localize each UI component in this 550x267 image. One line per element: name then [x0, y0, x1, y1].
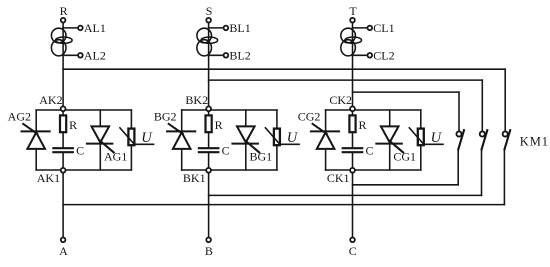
svg-text:BG2: BG2	[154, 110, 177, 124]
tap CL1	[353, 27, 368, 29]
svg-text:R: R	[215, 118, 223, 132]
thyristor BG1 (middle branch, pointing down)	[245, 110, 247, 126]
gate of BG1	[246, 141, 260, 153]
svg-text:AL2: AL2	[84, 48, 106, 62]
svg-text:AK1: AK1	[37, 171, 60, 185]
KM1 contact for phase B	[480, 131, 485, 136]
node BK2	[206, 106, 211, 111]
svg-text:AG2: AG2	[8, 110, 31, 124]
svg-text:AK2: AK2	[39, 93, 62, 107]
wire S terminal down to reactor	[208, 23, 210, 28]
svg-text:C: C	[349, 244, 357, 258]
wire bus from phase B to KM1 contact	[209, 79, 483, 81]
svg-text:KM1: KM1	[520, 134, 549, 148]
svg-text:CL1: CL1	[373, 21, 394, 35]
snubber box top wire	[182, 109, 277, 111]
KM1 contact for phase C	[456, 131, 461, 136]
wire contact bottom return to node BK1	[481, 150, 483, 196]
svg-text:BL1: BL1	[229, 21, 250, 35]
wire contact bottom return to node AK1	[503, 150, 505, 205]
svg-text:BK2: BK2	[185, 93, 208, 107]
snubber box bottom wire	[326, 169, 421, 171]
svg-text:CG2: CG2	[298, 110, 321, 124]
svg-text:CK1: CK1	[327, 171, 350, 185]
node CK2	[350, 106, 355, 111]
thyristor AG1 (middle branch, pointing down)	[99, 110, 101, 126]
capacitor C	[53, 147, 72, 149]
svg-text:CL2: CL2	[373, 48, 394, 62]
load terminal B	[206, 238, 211, 243]
snubber box bottom wire	[36, 169, 131, 171]
snubber box bottom wire	[182, 169, 277, 171]
gate of AG2	[23, 124, 37, 134]
varistor U (right branch)	[130, 110, 132, 129]
svg-text:S: S	[206, 4, 213, 18]
wire contact bottom return to node CK1	[457, 150, 459, 185]
resistor R	[352, 110, 354, 115]
capacitor C	[199, 147, 218, 149]
svg-text:C: C	[366, 143, 374, 157]
resistor R	[208, 110, 210, 115]
svg-text:U: U	[287, 130, 299, 146]
svg-text:A: A	[59, 244, 68, 258]
gate of CG2	[313, 124, 327, 134]
load terminal C	[350, 238, 355, 243]
reactor coil CL (tapped winding)	[341, 28, 356, 43]
KM1 contact for phase A	[503, 131, 508, 136]
wire CK1 down to load terminal C	[352, 170, 354, 238]
svg-text:T: T	[349, 4, 357, 18]
svg-text:R: R	[69, 118, 77, 132]
svg-text:U: U	[431, 130, 443, 146]
wire through reactor	[352, 28, 354, 110]
svg-text:C: C	[222, 143, 230, 157]
thyristor CG2 (left branch, pointing up)	[325, 110, 327, 131]
svg-text:B: B	[205, 244, 213, 258]
node CK1	[350, 168, 355, 173]
wire bus from phase A to KM1 contact	[63, 68, 505, 70]
wire through reactor	[62, 28, 64, 110]
thyristor AG2 (left branch, pointing up)	[35, 110, 37, 131]
node BK1	[206, 168, 211, 173]
svg-text:R: R	[359, 118, 367, 132]
tap CL2	[353, 54, 368, 56]
wire AK1 down to load terminal A	[62, 170, 64, 238]
thyristor BG2 (left branch, pointing up)	[181, 110, 183, 131]
wire bus from phase C to KM1 contact	[353, 91, 460, 93]
varistor U (right branch)	[420, 110, 422, 129]
load terminal A	[61, 238, 66, 243]
svg-text:CK2: CK2	[329, 93, 352, 107]
resistor R	[62, 110, 64, 115]
node AK2	[61, 106, 66, 111]
svg-text:U: U	[141, 130, 153, 146]
tap BL1	[209, 27, 224, 29]
svg-text:R: R	[60, 4, 68, 18]
svg-text:AL1: AL1	[84, 21, 106, 35]
svg-text:BL2: BL2	[229, 48, 250, 62]
thyristor CG1 (middle branch, pointing down)	[389, 110, 391, 126]
gate of CG1	[389, 141, 403, 153]
svg-text:C: C	[76, 143, 84, 157]
node AK1	[61, 168, 66, 173]
svg-text:BK1: BK1	[183, 171, 206, 185]
snubber box top wire	[326, 109, 421, 111]
reactor coil AL (tapped winding)	[51, 28, 66, 43]
wire T terminal down to reactor	[352, 23, 354, 28]
svg-text:AG1: AG1	[104, 150, 127, 164]
capacitor C	[343, 147, 362, 149]
wire BK1 down to load terminal B	[208, 170, 210, 238]
wire through reactor	[208, 28, 210, 110]
gate of AG1	[100, 141, 114, 153]
tap BL2	[209, 54, 224, 56]
tap AL2	[63, 54, 78, 56]
svg-text:BG1: BG1	[250, 150, 273, 164]
svg-text:CG1: CG1	[393, 150, 416, 164]
varistor U (right branch)	[276, 110, 278, 129]
wire R terminal down to reactor	[62, 23, 64, 28]
gate of BG2	[169, 124, 183, 134]
tap AL1	[63, 27, 78, 29]
snubber box top wire	[36, 109, 131, 111]
reactor coil BL (tapped winding)	[197, 28, 212, 43]
